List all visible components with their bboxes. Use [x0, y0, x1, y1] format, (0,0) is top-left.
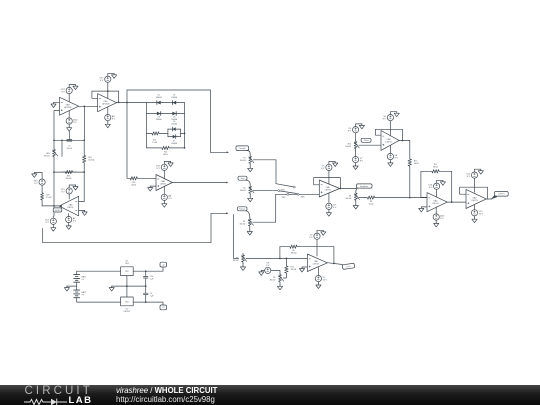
svg-text:9 V: 9 V	[467, 176, 471, 178]
svg-text:9 V: 9 V	[309, 237, 313, 239]
svg-text:300 kΩ: 300 kΩ	[345, 198, 351, 200]
svg-text:9 V: 9 V	[360, 160, 364, 162]
svg-text:1.5 kΩ: 1.5 kΩ	[152, 142, 158, 144]
svg-text:9 V: 9 V	[100, 80, 104, 82]
svg-text:1.5 kΩ: 1.5 kΩ	[46, 197, 52, 199]
svg-text:9 V: 9 V	[395, 157, 399, 159]
svg-text:9 V: 9 V	[82, 279, 85, 281]
svg-text:98 kΩ: 98 kΩ	[433, 167, 438, 169]
svg-text:300 kΩ: 300 kΩ	[240, 190, 246, 192]
svg-text:300 kΩ: 300 kΩ	[291, 253, 297, 255]
svg-text:LM741: LM741	[325, 189, 332, 191]
svg-text:1N4004: 1N4004	[171, 97, 177, 99]
svg-text:Amplitude: Amplitude	[360, 185, 368, 188]
svg-text:Offset: Offset	[364, 139, 369, 142]
svg-text:LM741: LM741	[386, 141, 393, 143]
svg-text:Triangle: Triangle	[239, 147, 246, 150]
svg-text:9 V: 9 V	[61, 192, 65, 194]
svg-text:9 V: 9 V	[168, 198, 172, 200]
svg-text:Square: Square	[239, 208, 245, 211]
svg-text:LM741: LM741	[471, 200, 478, 202]
svg-text:1N4004: 1N4004	[156, 97, 162, 99]
svg-text:SW2: SW2	[282, 197, 286, 199]
svg-text:1N4004: 1N4004	[171, 143, 177, 145]
svg-text:Sine: Sine	[241, 178, 245, 180]
svg-text:1 µF: 1 µF	[150, 279, 155, 281]
svg-text:LM7912: LM7912	[124, 311, 131, 313]
svg-text:200 kΩ: 200 kΩ	[44, 156, 50, 158]
svg-text:LM741: LM741	[67, 207, 74, 209]
svg-text:300 kΩ: 300 kΩ	[240, 160, 246, 162]
svg-text:9 V: 9 V	[82, 295, 85, 297]
svg-text:600 Ω: 600 Ω	[132, 184, 137, 186]
svg-text:200 kΩ: 200 kΩ	[66, 178, 72, 180]
svg-text:7912: 7912	[125, 301, 129, 303]
svg-text:9 V: 9 V	[157, 168, 161, 170]
svg-text:9 V: 9 V	[266, 265, 270, 267]
svg-text:9 V: 9 V	[333, 207, 337, 209]
svg-text:15 V: 15 V	[479, 214, 484, 216]
svg-text:LM741: LM741	[313, 264, 320, 266]
svg-text:SW3: SW3	[301, 197, 305, 199]
svg-text:300 kΩ: 300 kΩ	[239, 223, 245, 225]
svg-text:9 V: 9 V	[61, 91, 65, 93]
svg-text:7812: 7812	[125, 271, 129, 273]
svg-text:9 V: 9 V	[348, 131, 352, 133]
svg-text:OUTPUT: OUTPUT	[498, 194, 505, 196]
svg-text:300 kΩ: 300 kΩ	[291, 269, 297, 271]
svg-text:LM741N: LM741N	[102, 104, 110, 106]
svg-text:7812: 7812	[125, 263, 129, 265]
svg-text:LM741: LM741	[160, 183, 167, 185]
svg-text:9 V: 9 V	[112, 119, 116, 121]
svg-text:9 V: 9 V	[34, 183, 38, 185]
svg-text:-12: -12	[162, 307, 165, 309]
svg-text:LM741: LM741	[432, 203, 439, 205]
svg-text:300 kΩ: 300 kΩ	[345, 146, 351, 148]
svg-text:LM741N: LM741N	[64, 107, 72, 109]
svg-text:9 V: 9 V	[321, 168, 325, 170]
svg-text:1N4004: 1N4004	[156, 119, 162, 121]
svg-text:500 kΩ: 500 kΩ	[88, 160, 94, 162]
svg-text:9 V: 9 V	[73, 122, 77, 124]
svg-text:500 nF: 500 nF	[67, 148, 73, 150]
svg-text:500 Ω: 500 Ω	[163, 154, 168, 156]
svg-text:15 V: 15 V	[323, 279, 328, 281]
svg-text:1N4004: 1N4004	[171, 124, 177, 126]
svg-text:9 V: 9 V	[46, 222, 50, 224]
svg-text:1 µF: 1 µF	[150, 295, 155, 297]
svg-text:+12: +12	[162, 264, 165, 266]
svg-text:9 V: 9 V	[440, 218, 444, 220]
svg-text:300 kΩ: 300 kΩ	[233, 260, 239, 262]
svg-text:9 V: 9 V	[383, 118, 387, 120]
svg-text:98 kΩ: 98 kΩ	[414, 163, 419, 165]
svg-text:31 kΩ: 31 kΩ	[369, 204, 374, 206]
svg-text:OFFSET: OFFSET	[54, 210, 60, 212]
svg-text:9 V: 9 V	[429, 187, 433, 189]
svg-text:9 V: 9 V	[73, 220, 77, 222]
svg-text:300 kΩ: 300 kΩ	[270, 279, 276, 281]
